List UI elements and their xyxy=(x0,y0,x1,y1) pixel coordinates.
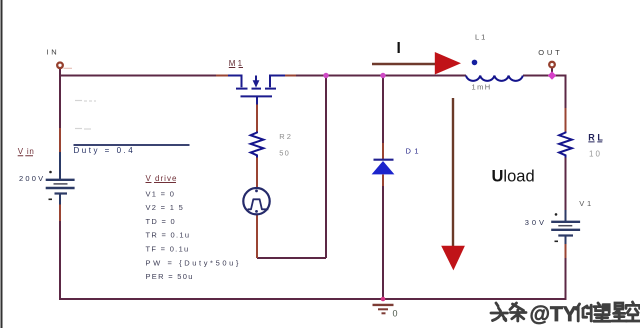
svg-text:TR = 0.1u: TR = 0.1u xyxy=(146,231,191,240)
svg-text:V drive: V drive xyxy=(146,174,178,183)
svg-text:Uload: Uload xyxy=(492,167,535,185)
svg-text:V2 = 1 5: V2 = 1 5 xyxy=(146,203,185,212)
svg-text:0: 0 xyxy=(393,309,398,319)
svg-text:L1: L1 xyxy=(475,32,487,41)
svg-text:V1: V1 xyxy=(579,199,594,208)
svg-text:30V: 30V xyxy=(525,218,547,227)
svg-text:200V: 200V xyxy=(19,174,45,183)
svg-text:V1 = 0: V1 = 0 xyxy=(146,189,176,198)
svg-text:R2: R2 xyxy=(279,132,293,141)
svg-text:M1: M1 xyxy=(229,59,245,68)
svg-text:I: I xyxy=(397,40,401,57)
svg-text:10: 10 xyxy=(589,149,602,158)
svg-text:PER = 50u: PER = 50u xyxy=(146,272,194,281)
svg-text:50: 50 xyxy=(279,149,290,158)
svg-text:1mH: 1mH xyxy=(472,83,492,92)
svg-text:TD = 0: TD = 0 xyxy=(146,217,177,226)
svg-text:IN: IN xyxy=(47,47,60,56)
svg-text:PW = {Duty*50u}: PW = {Duty*50u} xyxy=(146,258,242,267)
svg-text:D1: D1 xyxy=(406,146,422,155)
svg-text:@TY: @TY xyxy=(530,303,577,326)
svg-text:Duty = 0.4: Duty = 0.4 xyxy=(74,146,136,155)
svg-text:V in: V in xyxy=(18,147,35,156)
svg-text:TF = 0.1u: TF = 0.1u xyxy=(146,245,190,254)
svg-text:RL: RL xyxy=(588,133,605,143)
svg-text:OUT: OUT xyxy=(538,48,562,57)
